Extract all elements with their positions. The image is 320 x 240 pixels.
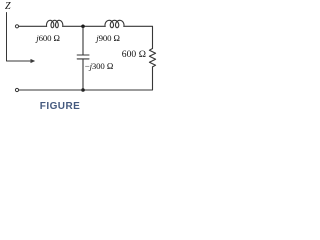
wire from L2 to top-right corner and down to resistor xyxy=(124,26,153,48)
capacitor top plate xyxy=(77,54,89,56)
node B junction dot bottom xyxy=(81,88,85,92)
node A junction dot xyxy=(81,25,85,29)
caption FIGURE xyxy=(40,101,80,112)
label j900 ohm xyxy=(96,33,120,43)
wire top from terminal to inductor L1 xyxy=(19,25,47,27)
capacitor bottom plate xyxy=(77,58,89,60)
inductor L1 j600 xyxy=(47,20,63,27)
terminal top-left xyxy=(15,25,18,28)
capacitor C top lead from node A xyxy=(82,27,84,55)
terminal bottom-left xyxy=(15,88,18,91)
capacitor bottom lead xyxy=(82,59,84,90)
wire from L1 to node A xyxy=(63,25,106,27)
resistor R 600 zigzag xyxy=(149,49,155,67)
wire bottom from node B to terminal xyxy=(19,89,83,91)
impedance Z arrow xyxy=(7,13,32,62)
label j600 ohm xyxy=(36,33,60,43)
inductor L2 j900 xyxy=(105,20,124,27)
label Z xyxy=(5,1,11,12)
wire resistor bottom to bottom-right corner and left xyxy=(84,67,153,90)
label 600 ohm xyxy=(122,49,146,60)
label -j300 ohm xyxy=(85,61,114,71)
